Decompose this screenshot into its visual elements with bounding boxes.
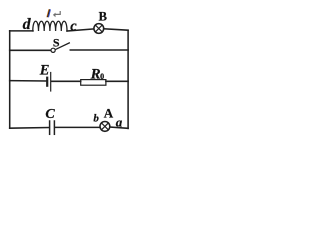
inductor L1 coil xyxy=(33,21,67,31)
svg-text:R: R xyxy=(90,66,101,82)
wire lamp A to right rail xyxy=(110,127,128,128)
svg-text:C: C xyxy=(45,107,55,122)
svg-text:c: c xyxy=(70,19,77,35)
wire switch row left xyxy=(10,49,51,51)
wire coil to lamp B xyxy=(67,29,94,31)
svg-text:b: b xyxy=(93,113,99,125)
lamp A circle xyxy=(100,122,110,132)
svg-text:B: B xyxy=(99,10,107,24)
battery E long plate xyxy=(50,73,52,92)
wire battery to resistor xyxy=(51,80,80,82)
battery E short plate xyxy=(46,78,48,86)
svg-text:a: a xyxy=(116,114,123,129)
resistor R0 box xyxy=(81,80,106,86)
right rail wire xyxy=(127,30,129,128)
svg-text:d: d xyxy=(23,16,32,33)
svg-text:0: 0 xyxy=(100,72,104,81)
inductor L label (clear-type colored stroke) xyxy=(47,9,51,17)
lamp B cross xyxy=(95,25,102,32)
switch S pivot circle xyxy=(51,48,55,52)
lamp B circle xyxy=(94,24,104,34)
svg-text:A: A xyxy=(104,105,114,120)
left rail wire xyxy=(9,31,11,128)
wire capacitor to lamp A xyxy=(55,126,100,128)
lamp A cross xyxy=(101,123,108,130)
svg-text:S: S xyxy=(53,35,60,49)
switch S arm xyxy=(56,43,70,50)
wire top row left xyxy=(10,30,33,32)
capacitor C left plate xyxy=(49,121,51,134)
wire switch to right rail xyxy=(70,49,128,51)
wire battery row left xyxy=(10,80,47,82)
wire lamp B to right rail xyxy=(104,29,128,30)
L return-arrow glyph xyxy=(53,11,61,17)
capacitor C right plate xyxy=(53,121,55,134)
wire bottom row left xyxy=(10,127,49,130)
svg-text:E: E xyxy=(39,63,50,79)
wire resistor to right rail xyxy=(106,80,128,82)
